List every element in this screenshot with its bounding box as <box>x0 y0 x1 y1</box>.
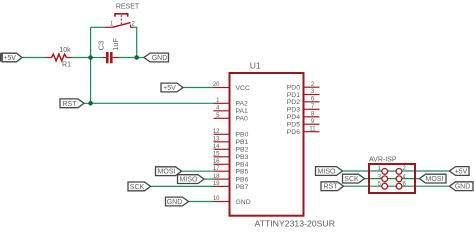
wire C3 to node B <box>118 57 137 59</box>
pin 18 PB6 <box>213 174 249 184</box>
svg-text:MOSI: MOSI <box>426 176 444 183</box>
svg-text:+5V: +5V <box>455 169 468 176</box>
svg-text:MISO: MISO <box>318 169 336 176</box>
label GND right of ISP <box>450 182 474 191</box>
pin 7 PD3 <box>287 104 320 114</box>
pin 3 PD1 <box>287 89 320 99</box>
resistor R1 <box>47 47 72 69</box>
svg-text:PA2: PA2 <box>236 101 249 108</box>
label +5V right of ISP <box>450 167 470 176</box>
svg-text:MISO: MISO <box>180 177 198 184</box>
svg-text:10k: 10k <box>59 47 71 54</box>
svg-text:PB0: PB0 <box>236 132 249 139</box>
IC U1 ATTINY2313-20SUR <box>230 60 335 228</box>
svg-text:GND: GND <box>455 184 471 191</box>
svg-text:PD6: PD6 <box>287 129 300 136</box>
label MISO near IC <box>178 175 205 184</box>
svg-text:PD2: PD2 <box>287 99 300 106</box>
wire RST to ISP pin5 to GND row <box>344 185 450 187</box>
pin 1 PA2 <box>214 98 249 108</box>
pin 4 PA1 <box>214 106 249 116</box>
pin 11 PD6 <box>287 126 320 136</box>
node B junction <box>134 55 139 60</box>
svg-text:11: 11 <box>309 126 316 132</box>
svg-text:R1: R1 <box>62 62 71 69</box>
label +5V top-left <box>2 53 22 62</box>
wire SCK to ISP pin3 to MOSI row <box>365 178 420 180</box>
svg-text:PD3: PD3 <box>287 107 300 114</box>
wire switch pin2 <box>133 26 138 28</box>
label GND near IC <box>166 197 189 206</box>
label SCK near IC <box>128 182 151 191</box>
wire node A to C3 <box>91 57 104 59</box>
svg-text:C3: C3 <box>97 41 106 51</box>
switch S1 RESET <box>105 4 140 28</box>
wire SCK to IC pin19 PB7 <box>151 185 214 187</box>
svg-text:GND: GND <box>152 55 168 62</box>
node A junction <box>88 55 93 60</box>
svg-text:20: 20 <box>213 82 220 88</box>
pin 8 PD4 <box>287 112 320 122</box>
pin 5 PA0 <box>214 113 249 123</box>
svg-text:U1: U1 <box>250 60 261 70</box>
ISP pin 3 <box>378 174 388 181</box>
svg-text:RST: RST <box>63 101 78 108</box>
svg-text:+5V: +5V <box>163 85 176 92</box>
wire node A vertical <box>90 27 92 103</box>
svg-text:18: 18 <box>213 174 220 180</box>
svg-text:+5V: +5V <box>3 55 16 62</box>
label MISO at ISP <box>316 167 343 176</box>
capacitor C3 <box>97 37 120 63</box>
wire node B up to switch <box>136 27 138 57</box>
svg-text:PB2: PB2 <box>236 147 249 154</box>
pin 12 PB0 <box>213 129 249 139</box>
wire GND to IC pin10 <box>189 201 214 203</box>
svg-text:1uF: 1uF <box>111 37 120 50</box>
wire MISO to IC pin18 PB6 <box>204 178 214 180</box>
svg-text:PA1: PA1 <box>236 108 249 115</box>
wire +5V to IC pin20 VCC <box>183 87 214 89</box>
ISP pin 2 <box>396 166 406 174</box>
svg-text:PD1: PD1 <box>287 92 300 99</box>
svg-text:GND: GND <box>236 199 251 206</box>
connector AVR-ISP box <box>369 157 415 194</box>
svg-text:RST: RST <box>324 184 339 191</box>
wire MISO to ISP pin1 to +5V row <box>343 170 450 172</box>
svg-text:PD4: PD4 <box>287 114 300 121</box>
ISP pin 4 <box>396 174 406 181</box>
svg-text:GND: GND <box>167 199 183 206</box>
ISP pin 1 <box>378 166 388 174</box>
label MOSI right of ISP <box>420 174 447 183</box>
svg-text:PB3: PB3 <box>236 154 249 161</box>
svg-text:MOSI: MOSI <box>158 169 176 176</box>
ISP pin 5 <box>378 182 388 189</box>
wire switch pin1 <box>91 26 105 28</box>
pin 19 PB7 <box>213 181 249 191</box>
clipped label bar at left edge <box>0 53 2 62</box>
svg-text:15: 15 <box>213 152 220 158</box>
label RST at ISP <box>321 182 344 191</box>
svg-text:PB7: PB7 <box>236 184 249 191</box>
svg-text:SCK: SCK <box>344 176 359 183</box>
label SCK at ISP <box>343 174 365 183</box>
svg-text:RESET: RESET <box>116 4 140 11</box>
label MOSI near IC <box>156 167 182 176</box>
svg-text:AVR-ISP: AVR-ISP <box>369 157 397 164</box>
svg-text:13: 13 <box>213 137 220 143</box>
wire +5V to R1 <box>22 57 47 59</box>
pin 14 PB2 <box>213 144 249 154</box>
pin 17 PB5 <box>213 166 249 176</box>
label GND top <box>144 53 169 62</box>
pin 15 PB3 <box>213 152 249 162</box>
node RST junction <box>88 101 93 106</box>
svg-text:PD0: PD0 <box>287 85 300 92</box>
pin 9 PD5 <box>287 119 320 129</box>
svg-text:PA0: PA0 <box>236 116 249 123</box>
svg-text:PB5: PB5 <box>236 169 249 176</box>
ISP pin 6 <box>396 182 406 189</box>
pin 13 PB1 <box>213 137 249 147</box>
pin 2 PD0 <box>287 82 320 92</box>
svg-text:PD5: PD5 <box>287 122 300 129</box>
svg-text:10: 10 <box>213 196 220 202</box>
wire RST to IC pin1 PA2 <box>84 102 214 104</box>
pin 20 VCC <box>213 82 250 92</box>
label RST left <box>60 99 84 108</box>
svg-text:PB6: PB6 <box>236 177 249 184</box>
svg-text:PB1: PB1 <box>236 139 249 146</box>
wire R1 to node A <box>71 57 91 59</box>
svg-text:ATTINY2313-20SUR: ATTINY2313-20SUR <box>255 218 335 228</box>
svg-text:SCK: SCK <box>130 184 145 191</box>
svg-text:19: 19 <box>213 181 220 187</box>
svg-text:VCC: VCC <box>236 85 250 92</box>
wire node B to GND label <box>137 57 145 59</box>
pin 6 PD2 <box>287 97 320 107</box>
svg-text:14: 14 <box>213 144 220 150</box>
svg-text:17: 17 <box>213 166 220 172</box>
svg-text:12: 12 <box>213 129 220 135</box>
pin 10 GND <box>213 196 251 206</box>
label +5V near IC <box>161 83 183 92</box>
wire MOSI to IC pin17 PB5 <box>182 170 214 172</box>
svg-text:16: 16 <box>213 159 220 165</box>
pin 16 PB4 <box>213 159 249 169</box>
